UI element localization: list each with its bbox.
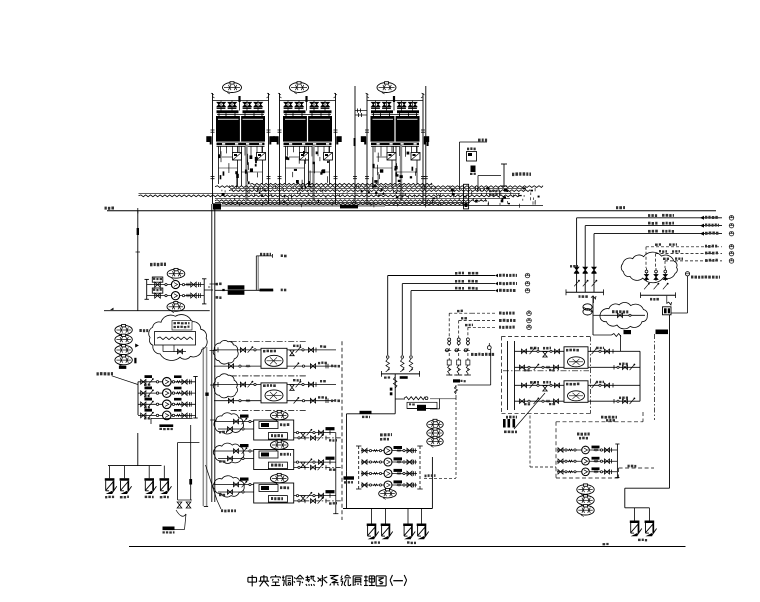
boiler circulation pumps [556, 412, 654, 478]
storage pumps group [97, 372, 198, 430]
floor branch unit 1 [214, 410, 342, 441]
left riser pipe [136, 211, 141, 311]
cooling tower CT3 [361, 82, 429, 204]
steam supply line [514, 296, 668, 468]
fan stack below boiler pumps [577, 484, 594, 517]
heating return dashed lines [646, 243, 734, 268]
chilled supply/return risers [203, 204, 217, 507]
floor branch unit 2 [213, 440, 342, 471]
expansion pipe group [445, 310, 532, 375]
heating user cloud [621, 252, 677, 300]
city heat exchanger station [502, 337, 641, 419]
expansion tank right [663, 272, 721, 315]
HX outlet dashed [424, 474, 456, 478]
floor branch unit 3 [213, 473, 342, 504]
bundle riser box [464, 184, 469, 209]
cooling tower CT1 [206, 82, 274, 204]
expansion tank link [430, 343, 494, 478]
pressure tank assembly [163, 425, 237, 534]
city water tap [503, 419, 517, 433]
cooling tower CT2 [273, 82, 341, 204]
condenser water pipe bundle [139, 183, 544, 209]
heating circulation pump [583, 296, 596, 315]
fan coil unit stack [115, 325, 148, 369]
air handling unit row 1 [213, 340, 340, 375]
suction header pipe [104, 308, 210, 311]
ground line [129, 543, 686, 547]
storage tank cloud [149, 315, 207, 361]
drain valves center [367, 509, 429, 545]
condenser riser CY-2 [424, 86, 429, 206]
water treatment device [404, 397, 437, 411]
heating supply mains [566, 214, 734, 298]
air handling unit row 2 [213, 374, 340, 411]
main header pipe [105, 206, 717, 213]
fan stack right of HX [427, 419, 443, 447]
condenser riser CY-1 [353, 86, 367, 206]
boiler feed line [625, 315, 670, 541]
branch header risers [333, 341, 342, 520]
boiler room cloud [594, 302, 648, 328]
drain valves left [105, 433, 172, 498]
plate HX pump station [343, 411, 432, 509]
title text [248, 575, 407, 586]
water collector [381, 371, 419, 414]
chilled water pumps B1-B2 [145, 263, 214, 313]
make-up water piping [460, 139, 532, 191]
high-zone supply lines [386, 272, 530, 372]
make-up branch [208, 253, 287, 299]
